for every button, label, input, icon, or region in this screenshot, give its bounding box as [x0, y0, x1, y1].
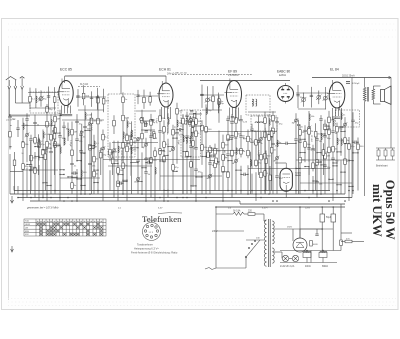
resistor	[122, 97, 125, 103]
resistor	[299, 130, 302, 136]
resistor	[141, 117, 144, 123]
capacitor	[47, 96, 50, 97]
wire OT secondary to speaker	[372, 86, 374, 89]
wire tie	[215, 161, 219, 163]
wire chain	[76, 114, 78, 161]
wire IF plate line	[200, 80, 290, 82]
cap lead mask	[325, 165, 326, 167]
resistor	[308, 129, 311, 135]
junction	[324, 129, 325, 130]
capacitor series	[74, 171, 75, 174]
capacitor	[12, 152, 15, 153]
junction	[316, 152, 317, 153]
resistor	[336, 127, 339, 133]
wire chain	[312, 176, 314, 194]
electrolytic C90	[320, 210, 325, 228]
coil	[60, 147, 61, 154]
junction	[141, 181, 142, 182]
wire tie	[81, 152, 85, 154]
wire chain	[141, 152, 143, 194]
wire tube pin	[238, 108, 240, 116]
wire tie	[142, 167, 146, 169]
wire stub	[137, 90, 139, 104]
wire chain	[76, 169, 78, 201]
capacitor	[297, 124, 300, 125]
wire upper tie	[200, 94, 224, 96]
junction	[209, 160, 210, 161]
coil	[23, 123, 24, 130]
wire C90 down	[321, 228, 323, 251]
wire r44 top	[265, 151, 267, 159]
cap lead mask	[81, 134, 82, 136]
resistor	[214, 149, 217, 155]
junction	[195, 185, 196, 186]
trimmer capacitor	[275, 156, 280, 161]
wire chain	[340, 160, 342, 194]
wire tie	[138, 181, 142, 183]
capacitor	[208, 163, 211, 164]
wire r61a	[341, 241, 345, 243]
wire tie	[177, 129, 183, 131]
output transformer T2 core	[366, 87, 368, 102]
wire r44 bottom	[265, 164, 267, 191]
resistor R60 bleeder	[340, 240, 343, 246]
wire tube pin	[70, 106, 72, 114]
junction dot	[84, 193, 86, 195]
junction	[34, 167, 35, 168]
coil	[250, 160, 251, 167]
output transformer T2 secondary winding	[372, 89, 375, 100]
wire upper tie	[30, 107, 56, 109]
coil	[131, 147, 132, 154]
resistor	[54, 142, 57, 148]
wire chain	[30, 141, 32, 194]
cap lead mask	[10, 116, 11, 118]
cap lead mask	[196, 169, 197, 171]
junction	[150, 162, 151, 163]
junction	[38, 146, 39, 147]
svg-text:31,5 Ω±: 31,5 Ω±	[80, 84, 89, 86]
capacitor	[80, 132, 83, 133]
cap lead mask	[333, 158, 334, 160]
wire tie	[85, 130, 90, 132]
wire chain	[322, 143, 324, 175]
svg-text:Betriebsart: Betriebsart	[376, 165, 388, 168]
Telefunken underline arc	[158, 212, 182, 215]
cap lead mask	[341, 126, 342, 128]
wire Betriebsart feed	[390, 143, 392, 148]
junction	[46, 147, 47, 148]
junction	[59, 145, 60, 146]
wire switch arm	[245, 257, 247, 268]
wire stub	[318, 91, 320, 105]
wire R50 to transformer	[255, 213, 264, 215]
wire mid bus	[160, 175, 222, 177]
wire tie	[35, 146, 39, 148]
resistor	[102, 134, 105, 140]
cap lead mask	[90, 163, 91, 165]
resistor	[264, 118, 267, 124]
trimmer capacitor	[88, 121, 93, 126]
wire output plate line	[312, 77, 391, 79]
coil	[309, 114, 310, 121]
junction dot	[30, 197, 32, 199]
junction dot PSU rail 2	[299, 206, 301, 208]
wire chain	[112, 152, 114, 175]
resistor	[13, 139, 16, 145]
wire stub	[303, 93, 305, 107]
cap lead mask	[54, 144, 55, 146]
junction	[76, 178, 77, 179]
scan halftone noise bottom	[8, 299, 396, 306]
junction	[84, 185, 85, 186]
resistor	[82, 93, 85, 99]
wire primary top	[263, 214, 265, 221]
svg-text:Opus 50 W: Opus 50 W	[383, 180, 397, 240]
wire C95 stub	[316, 229, 318, 234]
wire chain	[34, 152, 36, 198]
bus wire B+	[10, 193, 345, 195]
wire to fuse	[216, 213, 233, 215]
capacitor	[189, 146, 192, 147]
wire tie	[191, 185, 196, 187]
coil	[43, 132, 44, 139]
bus wire AGC	[14, 190, 330, 192]
trimmer capacitor	[136, 177, 141, 182]
trimmer capacitor	[307, 126, 312, 131]
capacitor	[323, 136, 326, 137]
cap lead mask	[300, 141, 301, 143]
junction	[172, 146, 173, 147]
wire chain	[247, 165, 249, 194]
resistor	[117, 168, 120, 174]
resistor	[235, 131, 238, 137]
wire tie	[296, 174, 300, 176]
svg-text:EABC 80: EABC 80	[277, 70, 290, 74]
wire chain	[268, 114, 270, 190]
resistor	[272, 128, 275, 134]
wire choke2 bottom	[322, 258, 324, 263]
resistor	[357, 144, 360, 150]
wire tie	[277, 142, 296, 144]
cap lead mask	[210, 163, 211, 165]
capacitor tube pin	[231, 117, 234, 118]
junction dot	[22, 193, 24, 195]
junction	[163, 150, 164, 151]
resistor	[260, 172, 263, 178]
resistor	[122, 143, 125, 149]
cap lead mask	[179, 129, 181, 130]
coil	[321, 133, 322, 140]
mixer tube V2 ECH81	[157, 81, 173, 109]
resistor	[222, 142, 225, 148]
resistor	[195, 119, 198, 125]
junction	[340, 171, 341, 172]
wire chain	[299, 125, 301, 194]
cap lead mask	[317, 139, 318, 141]
resistor K10	[153, 132, 155, 137]
wire C91 down	[332, 228, 334, 251]
junction	[130, 162, 131, 163]
junction dot	[240, 190, 242, 192]
junction	[328, 129, 329, 130]
capacitor	[149, 136, 152, 137]
wire chain	[167, 139, 169, 198]
coil	[127, 121, 128, 128]
wire OT bottom down	[364, 101, 366, 196]
wire chain	[264, 112, 266, 194]
ratio det coil	[255, 122, 265, 123]
capacitor	[53, 144, 56, 145]
resistor	[260, 154, 263, 160]
capacitor	[296, 95, 299, 96]
cap lead mask	[317, 181, 318, 183]
capacitor	[185, 136, 188, 137]
IF transformer I box	[181, 110, 201, 157]
cap lead mask	[81, 131, 82, 133]
svg-text:EF 89: EF 89	[228, 70, 237, 74]
wire chain	[222, 135, 224, 201]
wire tie	[10, 146, 14, 148]
junction	[324, 133, 325, 134]
junction	[336, 165, 337, 166]
junction dot	[59, 197, 61, 199]
capacitor	[58, 114, 61, 115]
wire tie	[146, 157, 151, 159]
svg-text:Heizspannung 6,3 V≈: Heizspannung 6,3 V≈	[134, 247, 159, 251]
wire chain	[163, 120, 165, 201]
wire tie	[187, 155, 191, 157]
capacitor	[230, 136, 233, 137]
svg-text:1M: 1M	[57, 119, 60, 121]
wire chain	[186, 112, 188, 194]
resistor	[272, 115, 275, 121]
junction dot	[63, 200, 65, 202]
junction	[240, 174, 241, 175]
junction	[352, 160, 353, 161]
wire upper tie	[298, 108, 326, 110]
wire tie	[202, 156, 206, 158]
resistor	[53, 133, 56, 139]
wire tie	[300, 138, 305, 140]
IF transformer II primary coil	[252, 99, 253, 106]
resistor	[22, 142, 25, 148]
wire left vertical redraw	[14, 152, 16, 194]
junction	[30, 167, 31, 168]
capacitor	[271, 143, 274, 144]
resistor	[240, 149, 243, 155]
cap lead mask	[355, 142, 357, 143]
junction dot	[46, 193, 48, 195]
coil	[206, 108, 207, 115]
wire upper tie	[202, 109, 222, 111]
resistor	[344, 159, 347, 165]
wire chain	[154, 147, 156, 201]
resistor	[222, 167, 225, 173]
cap lead mask	[85, 126, 86, 128]
capacitor	[25, 119, 28, 120]
wire chain	[272, 111, 274, 194]
junction	[214, 160, 215, 161]
wire chain	[17, 131, 19, 194]
wire chain	[231, 114, 233, 197]
wire lamp1-2	[289, 258, 292, 260]
svg-text:225V: 225V	[305, 208, 311, 210]
junction	[320, 162, 321, 163]
wire V2 grid cap stub	[165, 76, 167, 83]
dial lamp La2	[292, 255, 298, 261]
resistor	[264, 132, 267, 138]
junction	[42, 149, 43, 150]
wire bus to bleeder	[340, 204, 342, 233]
svg-text:1M: 1M	[327, 156, 330, 158]
junction	[320, 164, 321, 165]
resistor	[122, 163, 125, 169]
junction	[9, 146, 10, 147]
resistor	[111, 158, 114, 164]
junction	[312, 180, 313, 181]
junction dot	[186, 197, 188, 199]
capacitor	[239, 120, 242, 121]
coil	[123, 132, 124, 139]
wire tie	[341, 130, 345, 132]
capacitor	[144, 172, 147, 173]
wire chain	[46, 104, 48, 201]
IF transformer I lower primary coil	[186, 136, 187, 143]
wire tie	[353, 152, 358, 154]
cap lead mask	[321, 119, 322, 121]
wire chain	[22, 118, 24, 201]
junction dot	[97, 190, 99, 192]
capacitor	[226, 154, 229, 155]
junction	[209, 155, 210, 156]
junction	[97, 169, 98, 170]
junction	[93, 169, 94, 170]
junction dot	[272, 200, 274, 202]
capacitor	[90, 97, 93, 98]
capacitor	[194, 148, 197, 149]
bus step	[239, 201, 241, 204]
wire tie	[349, 160, 353, 162]
resistor	[190, 162, 193, 168]
capacitor	[294, 139, 297, 140]
trimmer	[205, 97, 210, 102]
junction	[328, 125, 329, 126]
junction	[50, 185, 51, 186]
junction	[38, 157, 39, 158]
wire stub	[149, 92, 151, 106]
junction	[117, 174, 118, 175]
wire stub	[212, 86, 214, 110]
wire tie	[18, 141, 23, 143]
wire tie	[228, 160, 232, 162]
capacitor tube pin	[69, 115, 72, 116]
wire mid bus	[60, 177, 100, 179]
svg-text:4700pF: 4700pF	[352, 83, 360, 85]
junction dot	[176, 197, 178, 199]
junction	[332, 165, 333, 166]
wire r45 top	[269, 166, 271, 175]
wire chain	[109, 142, 111, 161]
junction dot	[304, 190, 306, 192]
junction	[71, 176, 72, 177]
arrow tip on top wire	[389, 76, 392, 78]
wire tie	[196, 176, 202, 178]
AM antenna roof	[20, 77, 25, 79]
wire stub	[96, 88, 98, 110]
junction	[145, 157, 146, 158]
wire choke1 bottom	[306, 258, 308, 263]
wire tube pin ext	[229, 116, 231, 120]
junction	[117, 182, 118, 183]
svg-text:Si 0,8A: Si 0,8A	[233, 210, 241, 213]
junction	[240, 169, 241, 170]
svg-text:1M: 1M	[74, 132, 77, 134]
wire chain	[257, 115, 259, 175]
wire lamp1	[281, 252, 283, 259]
capacitor series	[286, 142, 287, 145]
mains fuse Si1 zigzag	[233, 212, 244, 215]
capacitor	[76, 96, 79, 97]
resistor	[71, 183, 74, 189]
svg-text:ECH 81: ECH 81	[159, 68, 171, 72]
junction	[84, 130, 85, 131]
junction dot	[344, 200, 346, 202]
coil	[337, 138, 338, 145]
junction	[316, 162, 317, 163]
wire tie	[300, 152, 305, 154]
junction	[13, 147, 14, 148]
cap lead mask	[74, 173, 76, 174]
wire chain	[249, 152, 251, 194]
resistor	[205, 127, 208, 133]
capacitor	[310, 95, 313, 96]
IF tube V3 EF89	[225, 79, 242, 110]
wire stub	[48, 87, 50, 110]
svg-text:mit UKW: mit UKW	[370, 184, 384, 237]
scan page left edge	[8, 46, 10, 300]
wire chain	[113, 141, 115, 198]
cap lead mask	[177, 132, 178, 134]
capacitor	[250, 129, 253, 130]
cap lead mask	[72, 163, 73, 165]
junction	[163, 190, 164, 191]
junction	[13, 146, 14, 147]
junction	[304, 152, 305, 153]
potentiometer P2 tone	[215, 158, 218, 164]
coil	[191, 131, 192, 138]
junction	[348, 143, 349, 144]
cap lead mask	[273, 143, 274, 145]
junction	[46, 185, 47, 186]
trimmer capacitor	[171, 147, 176, 152]
wire OT primary return	[351, 90, 353, 198]
capacitor	[307, 148, 310, 149]
wire chain	[59, 110, 61, 201]
wire tie	[160, 150, 164, 152]
bus wire ground left	[30, 200, 240, 202]
wire EM80 grid	[275, 162, 286, 164]
wire tie	[296, 167, 300, 169]
junction	[163, 155, 164, 156]
svg-text:ZF 10,7: ZF 10,7	[149, 130, 151, 138]
junction	[227, 139, 228, 140]
wire r45 bottom	[269, 181, 271, 195]
wire tie	[337, 151, 341, 153]
wire mid bus	[14, 169, 58, 171]
capacitor	[175, 132, 178, 133]
junction	[159, 160, 160, 161]
